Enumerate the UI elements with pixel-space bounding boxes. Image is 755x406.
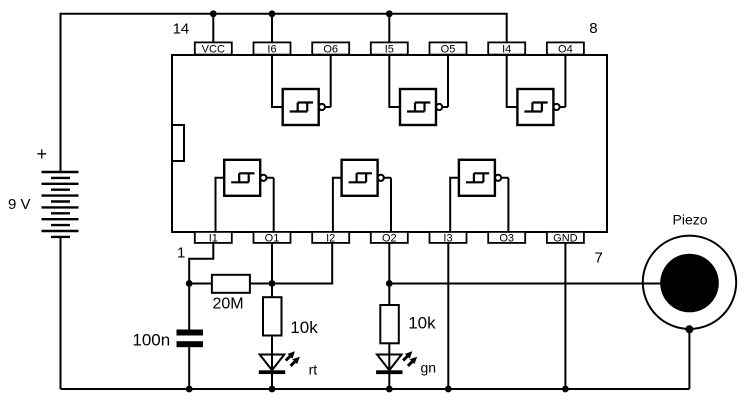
svg-text:I5: I5: [385, 43, 394, 55]
svg-text:Piezo: Piezo: [673, 211, 708, 227]
svg-text:I3: I3: [443, 232, 452, 244]
svg-text:O4: O4: [558, 43, 573, 55]
svg-text:I4: I4: [502, 43, 511, 55]
svg-text:O2: O2: [382, 232, 397, 244]
svg-text:7: 7: [595, 249, 603, 266]
svg-text:10k: 10k: [290, 318, 318, 337]
svg-text:10k: 10k: [408, 314, 436, 333]
svg-text:9 V: 9 V: [8, 196, 31, 213]
svg-text:20M: 20M: [213, 296, 244, 313]
svg-text:O3: O3: [499, 232, 514, 244]
svg-text:O6: O6: [323, 43, 338, 55]
svg-text:8: 8: [589, 20, 597, 37]
svg-text:I6: I6: [267, 43, 276, 55]
svg-text:O5: O5: [441, 43, 456, 55]
svg-text:GND: GND: [553, 232, 578, 244]
svg-text:1: 1: [177, 245, 185, 262]
svg-text:I1: I1: [209, 232, 218, 244]
svg-text:14: 14: [173, 21, 190, 38]
svg-text:rt: rt: [309, 362, 318, 378]
svg-text:VCC: VCC: [202, 43, 225, 55]
svg-text:100n: 100n: [132, 330, 170, 349]
svg-text:+: +: [37, 144, 48, 164]
svg-text:I2: I2: [326, 232, 335, 244]
svg-text:O1: O1: [265, 232, 280, 244]
svg-text:gn: gn: [421, 360, 437, 376]
